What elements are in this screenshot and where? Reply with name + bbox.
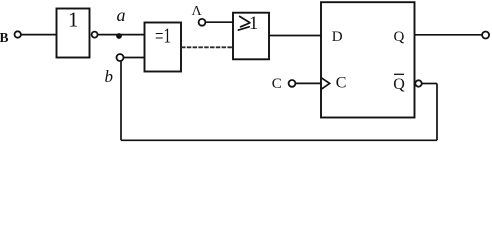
- svg-text:b: b: [105, 67, 114, 86]
- svg-text:a: a: [117, 5, 126, 25]
- svg-text:1: 1: [249, 14, 258, 34]
- svg-text:Λ: Λ: [192, 4, 203, 19]
- svg-text:Q: Q: [393, 76, 405, 93]
- svg-text:Q: Q: [394, 29, 405, 45]
- svg-text:B: B: [0, 30, 9, 45]
- svg-text:=1: =1: [155, 23, 171, 47]
- svg-text:C: C: [336, 75, 347, 92]
- svg-text:1: 1: [68, 8, 79, 32]
- svg-text:C: C: [272, 76, 282, 92]
- svg-text:D: D: [332, 29, 343, 45]
